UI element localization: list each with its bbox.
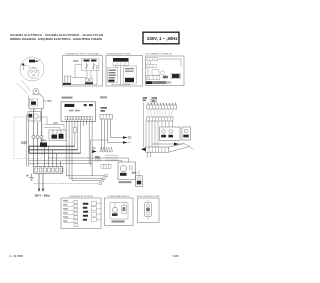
wire compressor down 3 bbox=[41, 109, 43, 136]
left box label bbox=[109, 80, 115, 82]
connector ticks bbox=[64, 76, 66, 82]
wire bbox=[75, 65, 82, 78]
wire compressor down 2 bbox=[37, 122, 39, 135]
pump motor box bbox=[160, 127, 181, 141]
wire bbox=[43, 100, 47, 102]
lower faston diamond bbox=[141, 147, 146, 151]
mid component bbox=[152, 70, 159, 76]
pin numbers row bbox=[148, 103, 176, 104]
contact 2 bbox=[93, 63, 95, 70]
compressor terminal cover (inside balloon) bbox=[28, 68, 39, 79]
overload protector bbox=[30, 99, 38, 106]
lamp bbox=[96, 65, 98, 67]
connector pair 3 bbox=[40, 135, 43, 138]
connector pair 2 bbox=[36, 135, 39, 138]
remote wire 5 bbox=[161, 121, 163, 127]
board sublabels bbox=[69, 110, 74, 112]
bottom wire bbox=[65, 68, 97, 85]
svg-text:MICROINTERRUTTORE: MICROINTERRUTTORE bbox=[137, 196, 160, 198]
svg-text:230V, 1 ~ ,50Hz: 230V, 1 ~ ,50Hz bbox=[147, 36, 178, 41]
svg-text:71/80: 71/80 bbox=[172, 254, 179, 258]
cable from probe label bbox=[143, 97, 148, 99]
wire bbox=[44, 124, 64, 130]
lamp L1 bbox=[85, 78, 89, 82]
strip drop wires bbox=[147, 152, 149, 157]
bus wire bbox=[29, 149, 78, 151]
svg-text:SCHEDA ELETTRONICA: SCHEDA ELETTRONICA bbox=[69, 195, 93, 198]
faston arrow 1 bbox=[123, 136, 128, 138]
balloon wire bbox=[28, 66, 31, 68]
fan assembly outline bbox=[91, 140, 119, 168]
dashed neutral line bbox=[34, 182, 99, 184]
probe wire 2 bbox=[145, 121, 147, 147]
wire bbox=[41, 117, 48, 125]
detail balloon circle bbox=[20, 57, 44, 81]
wire bbox=[37, 139, 39, 167]
fan motor M bbox=[120, 165, 126, 171]
terminal pin C bbox=[30, 70, 32, 72]
mains arrow L bbox=[38, 189, 40, 192]
connector label bbox=[63, 83, 71, 85]
mini strip top bbox=[147, 58, 158, 61]
wire bbox=[112, 83, 130, 85]
board wire 6 bbox=[80, 120, 82, 154]
board wire 1 bbox=[66, 120, 105, 176]
board label bbox=[65, 104, 75, 107]
bottom box F: float switch detail bbox=[137, 196, 160, 223]
remote wire 8 bbox=[172, 121, 174, 127]
starting relay K1 bbox=[28, 109, 47, 125]
mains wire N bbox=[42, 174, 44, 190]
relay label bbox=[172, 74, 180, 78]
fan label below bbox=[119, 181, 132, 183]
terminal board diagram box B bbox=[106, 52, 143, 86]
transformer box left of board bbox=[44, 122, 66, 140]
board wire 10 bbox=[91, 120, 93, 176]
optional connection diagram box C bbox=[145, 52, 185, 85]
connector CN strip bbox=[100, 115, 113, 120]
board wire 5 bbox=[77, 120, 79, 150]
CN wire 3 bbox=[108, 119, 124, 143]
bus to fan bbox=[48, 158, 129, 162]
enclosure wire pair bbox=[26, 115, 29, 167]
remote connector strip lower bbox=[147, 117, 174, 121]
small terminal circles lower bbox=[95, 159, 97, 161]
wire bbox=[120, 65, 122, 85]
cover top notch bbox=[33, 68, 35, 70]
lower terminal strip bbox=[146, 147, 169, 152]
svg-text:230 V ~ 50Hz: 230 V ~ 50Hz bbox=[35, 194, 51, 197]
label below bbox=[112, 220, 125, 222]
balloon wire bbox=[35, 60, 41, 62]
functional diagram box A bbox=[63, 52, 103, 86]
bottom dark bar bbox=[146, 81, 153, 84]
bus junction tie bbox=[28, 146, 30, 153]
svg-text:COLLEGAMENTO SONDA UR: COLLEGAMENTO SONDA UR bbox=[145, 52, 173, 55]
mini strip 2 bbox=[147, 64, 157, 67]
balloon wire left bbox=[23, 63, 25, 70]
strip link wires bbox=[148, 109, 172, 117]
remote wire 7 bbox=[168, 121, 170, 127]
contact 1 bbox=[86, 63, 88, 70]
remote wire 1 bbox=[148, 121, 150, 147]
remote wire 6 bbox=[165, 121, 167, 127]
faston diamond bbox=[174, 143, 179, 146]
terminal block header bbox=[113, 58, 129, 62]
remote connector strip upper bbox=[147, 105, 177, 109]
faston arrow 2 bbox=[123, 141, 128, 143]
wire bbox=[147, 68, 149, 80]
CN wire 1 bbox=[101, 119, 103, 151]
wire filter to strip bbox=[44, 147, 46, 166]
right component box bbox=[124, 66, 137, 84]
run capacitor bbox=[132, 171, 143, 187]
switch label bbox=[84, 60, 90, 62]
wire bbox=[33, 139, 35, 167]
wire with faston to right bbox=[152, 143, 174, 145]
dashed enclosure (condensate pump) bbox=[14, 115, 42, 167]
terminal circle row bbox=[100, 150, 113, 152]
inline connector 1 bbox=[25, 141, 28, 144]
left component box bbox=[108, 68, 118, 83]
pump motor symbol bbox=[112, 207, 117, 212]
faston arrow inside bbox=[92, 147, 95, 148]
connector CN labels bbox=[101, 107, 108, 109]
mains arrow N bbox=[42, 189, 44, 192]
board wire 8 bbox=[85, 120, 87, 125]
cells row bbox=[146, 75, 160, 79]
bus to fan 2 bbox=[29, 161, 122, 162]
board wire 3 bbox=[72, 120, 101, 181]
bottom gray band bbox=[153, 81, 166, 84]
switch block bbox=[82, 59, 100, 71]
flag pointer bbox=[169, 144, 184, 147]
electronic control board bbox=[61, 97, 96, 122]
wire bbox=[72, 71, 88, 78]
remote wire 3 bbox=[154, 121, 156, 147]
small connector bbox=[101, 164, 111, 168]
ground symbol bbox=[29, 174, 33, 181]
svg-text:WIRING DIAGRAM - ESQUEMA ELECT: WIRING DIAGRAM - ESQUEMA ELECTRICO - HΛE… bbox=[10, 37, 103, 41]
board wire 9 bbox=[88, 120, 90, 164]
switch label bbox=[91, 60, 97, 62]
board wire 4 with fuse bbox=[74, 120, 76, 128]
probe wire 1 bbox=[143, 102, 145, 147]
right box label bbox=[125, 78, 134, 82]
bus drop bbox=[52, 150, 54, 167]
label above CN bbox=[100, 96, 107, 98]
wire compressor down 1 bbox=[33, 109, 35, 136]
aux motor box bbox=[182, 127, 191, 140]
remote wire 4 bbox=[157, 121, 159, 147]
bus drop bbox=[56, 153, 58, 166]
wires to fan box bbox=[105, 154, 118, 156]
bus wire bbox=[29, 152, 81, 154]
remote wire 2 bbox=[151, 121, 153, 147]
compressor M1 bbox=[29, 88, 52, 108]
label above board bbox=[62, 97, 73, 99]
connector pair 1 bbox=[32, 135, 35, 138]
CN wire 2 bbox=[104, 119, 106, 151]
svg-text:I.L. 09.0588: I.L. 09.0588 bbox=[9, 254, 23, 258]
callout leader line bbox=[21, 80, 30, 91]
terminal strip X1 bbox=[34, 167, 64, 174]
board wire 7 bbox=[83, 120, 85, 126]
bus drop bbox=[48, 146, 50, 166]
bottom box D: control board connectors bbox=[61, 195, 101, 229]
bottom box E: pump detail bbox=[105, 195, 134, 226]
CN wire 4 bbox=[111, 119, 124, 138]
left wires bbox=[147, 61, 149, 65]
ground tick label bbox=[26, 175, 29, 177]
terminal pin S bbox=[35, 70, 37, 72]
svg-text:SCHEMA ELETTRICO FUNZIONALE: SCHEMA ELETTRICO FUNZIONALE bbox=[65, 52, 100, 55]
svg-text:SCHEMA MORSETTIERA: SCHEMA MORSETTIERA bbox=[107, 52, 132, 55]
voltage rating box 230V 1~ 50Hz bbox=[143, 32, 179, 44]
wire bbox=[41, 139, 43, 144]
terminal block row bbox=[113, 62, 129, 66]
small label bbox=[163, 76, 168, 79]
balloon label bbox=[29, 60, 35, 63]
remote control unit labels bbox=[152, 97, 158, 99]
lamp L2 bbox=[89, 78, 93, 82]
interference filter (dark) bbox=[40, 143, 47, 148]
lamp label bbox=[85, 82, 93, 84]
wire bbox=[44, 128, 60, 130]
board wire 2 bbox=[69, 120, 103, 179]
terminal pin R bbox=[32, 74, 34, 76]
fan motor box bbox=[118, 162, 136, 183]
svg-text:POMPA SMALTIMENTO: POMPA SMALTIMENTO bbox=[108, 195, 131, 198]
wire right bbox=[158, 59, 181, 67]
bus drop bbox=[60, 161, 62, 167]
bus wire bbox=[29, 145, 75, 147]
callout leader line bbox=[17, 83, 28, 93]
bus 3 bbox=[29, 163, 92, 165]
mid lamp bbox=[161, 71, 165, 75]
inline connector 2 bbox=[22, 141, 25, 144]
board terminal row bbox=[65, 116, 92, 119]
mains wire L bbox=[38, 174, 40, 190]
wire bbox=[90, 71, 92, 79]
